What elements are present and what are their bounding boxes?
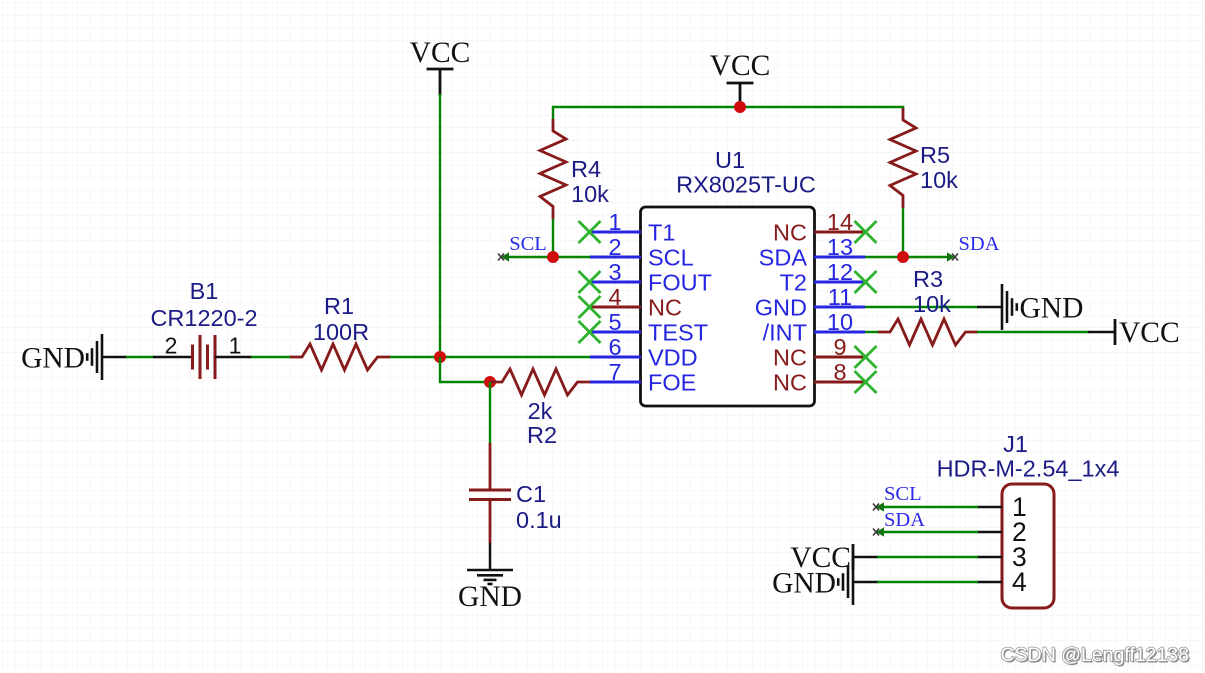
pin 2 (J1) xyxy=(977,517,1027,547)
pin 13 SDA (U1 right) xyxy=(759,234,865,271)
svg-text:3: 3 xyxy=(608,259,621,285)
resistor R4 xyxy=(540,119,566,219)
svg-text:SDA: SDA xyxy=(958,233,999,255)
svg-text:2: 2 xyxy=(165,333,178,359)
svg-text:T2: T2 xyxy=(780,270,807,296)
wire VCC2 stub xyxy=(739,83,742,108)
no-connect X (U1 left pin at y=232) xyxy=(579,221,601,243)
pin 14 NC (U1 right) xyxy=(773,209,865,246)
svg-text:GND: GND xyxy=(755,295,807,321)
svg-text:FOUT: FOUT xyxy=(648,270,712,296)
junction R2/C1 node xyxy=(484,376,496,388)
svg-text:8: 8 xyxy=(833,359,846,385)
wire GND stub black xyxy=(977,306,1002,309)
power flag VCC (right) xyxy=(1115,317,1180,349)
pin 1 (J1) xyxy=(977,492,1027,522)
svg-text:12: 12 xyxy=(827,259,853,285)
wire end marker SCL xyxy=(498,252,509,261)
svg-text:U1: U1 xyxy=(715,147,745,173)
pin 4 NC (U1 left) xyxy=(590,284,682,321)
svg-text:RX8025T-UC: RX8025T-UC xyxy=(676,172,816,198)
junction SCL node xyxy=(547,251,559,263)
junction VDD node xyxy=(434,351,446,363)
pin 8 NC (U1 right) xyxy=(773,359,865,396)
pin 4 (J1) xyxy=(977,567,1027,597)
resistor R2 xyxy=(490,369,590,395)
wire SDA net xyxy=(865,256,954,258)
svg-text:T1: T1 xyxy=(648,220,675,246)
pin 2 SCL (U1 left) xyxy=(590,234,694,271)
svg-text:SDA: SDA xyxy=(884,509,925,531)
wire VCC to J1 pin3 xyxy=(877,556,978,558)
watermark CSDN xyxy=(1000,644,1190,668)
svg-text:GND: GND xyxy=(772,567,836,599)
wire end marker SDA J1 xyxy=(873,527,884,536)
svg-text:4: 4 xyxy=(608,284,621,310)
svg-text:NC: NC xyxy=(773,370,807,396)
svg-text:11: 11 xyxy=(828,284,852,310)
op-amp U1 body xyxy=(641,207,815,406)
svg-text:R2: R2 xyxy=(527,422,557,448)
pin 3 FOUT (U1 left) xyxy=(590,259,712,296)
svg-text:J1: J1 xyxy=(1003,431,1028,457)
svg-text:10k: 10k xyxy=(571,181,609,207)
wire C1 to ground xyxy=(489,543,492,570)
svg-text:R5: R5 xyxy=(920,142,950,168)
wire GND to battery xyxy=(126,356,154,358)
svg-text:VDD: VDD xyxy=(648,345,698,371)
ground GND (right) xyxy=(1002,284,1083,330)
capacitor C1 xyxy=(469,443,511,543)
svg-text:SDA: SDA xyxy=(759,245,808,271)
svg-text:14: 14 xyxy=(827,209,853,235)
svg-text:7: 7 xyxy=(608,359,621,385)
svg-text:HDR-M-2.54_1x4: HDR-M-2.54_1x4 xyxy=(937,456,1120,482)
wire GND stub (J1) xyxy=(853,581,878,584)
wire to R2 xyxy=(440,381,490,383)
wire VCC vertical to VDD net xyxy=(439,94,441,358)
svg-text:VCC: VCC xyxy=(410,37,471,69)
svg-text:GND: GND xyxy=(1020,292,1084,324)
svg-text:NC: NC xyxy=(773,220,807,246)
resistor R3 xyxy=(878,319,978,345)
power flag VCC (J1 pin3) xyxy=(790,542,853,574)
wire top horizontal VCC net xyxy=(552,106,904,108)
wire pin10 to R3 xyxy=(865,331,879,333)
wire GND to J1 pin4 xyxy=(877,581,978,583)
svg-text:13: 13 xyxy=(827,234,853,260)
ground GND (bottom) xyxy=(458,570,522,613)
svg-text:R1: R1 xyxy=(324,293,354,319)
svg-text:C1: C1 xyxy=(516,481,546,507)
resistor R1 xyxy=(290,344,390,370)
wire SCL net xyxy=(502,256,590,258)
svg-text:GND: GND xyxy=(458,581,522,613)
no-connect X (U1 left pin at y=282) xyxy=(579,271,601,293)
ground GND (left) xyxy=(21,334,102,380)
wire R5 top stub xyxy=(902,106,904,110)
wire node to C1 xyxy=(489,382,491,444)
svg-text:R3: R3 xyxy=(913,266,943,292)
wire R4 bottom to SCL xyxy=(552,219,554,258)
power flag VCC (top-left) xyxy=(410,37,471,69)
svg-text:GND: GND xyxy=(21,342,85,374)
no-connect X (U1 right pin at y=232) xyxy=(855,221,877,243)
wire R5 bottom to SDA xyxy=(902,208,904,258)
wire VDD node down xyxy=(439,357,441,383)
pin 5 TEST (U1 left) xyxy=(590,309,708,346)
resistor R5 xyxy=(890,108,916,208)
wire end marker SDA xyxy=(947,252,958,261)
wire VCC stub xyxy=(439,69,442,96)
svg-text:100R: 100R xyxy=(313,319,369,345)
svg-text:10k: 10k xyxy=(913,291,951,317)
svg-text:SCL: SCL xyxy=(648,245,694,271)
svg-text:6: 6 xyxy=(608,334,621,360)
svg-text:1: 1 xyxy=(608,209,621,235)
svg-text:5: 5 xyxy=(608,309,621,335)
ground GND (J1 pin4) xyxy=(772,559,853,605)
svg-text:NC: NC xyxy=(773,345,807,371)
power flag VCC (top-center) xyxy=(710,50,771,83)
wire battery to R1 xyxy=(251,356,291,358)
svg-text:B1: B1 xyxy=(190,278,219,304)
no-connect X (U1 left pin at y=307) xyxy=(579,296,601,318)
junction SDA node xyxy=(897,251,909,263)
pin 6 VDD (U1 left) xyxy=(590,334,698,371)
wire R4 top stub xyxy=(552,107,554,120)
svg-text:CSDN @Lengff12138: CSDN @Lengff12138 xyxy=(1000,644,1189,666)
svg-text:VCC: VCC xyxy=(710,50,771,82)
pin 11 GND (U1 right) xyxy=(755,284,865,321)
pin 9 NC (U1 right) xyxy=(773,334,865,371)
wire VCC stub black xyxy=(1088,331,1115,334)
svg-text:/INT: /INT xyxy=(763,320,807,346)
svg-text:0.1u: 0.1u xyxy=(516,507,562,533)
connector J1 body xyxy=(1002,484,1054,608)
no-connect X (U1 right pin at y=382) xyxy=(855,371,877,393)
svg-text:2k: 2k xyxy=(528,398,553,424)
wire SCL to J1 pin1 xyxy=(877,506,978,508)
svg-text:SCL: SCL xyxy=(509,233,547,255)
svg-text:R4: R4 xyxy=(571,156,601,182)
svg-text:TEST: TEST xyxy=(648,320,708,346)
svg-text:CR1220-2: CR1220-2 xyxy=(150,305,257,331)
svg-text:VCC: VCC xyxy=(1119,317,1180,349)
svg-text:NC: NC xyxy=(648,295,682,321)
pin 10 /INT (U1 right) xyxy=(763,309,865,346)
svg-text:10: 10 xyxy=(827,309,853,335)
svg-text:10k: 10k xyxy=(920,167,958,193)
pin 7 FOE (U1 left) xyxy=(590,359,696,396)
wire SDA to J1 pin2 xyxy=(877,531,978,533)
wire R1 to VDD pin xyxy=(390,356,590,358)
wire GND net (pin 11) xyxy=(865,306,978,308)
svg-text:FOE: FOE xyxy=(648,370,696,396)
battery B1 xyxy=(153,335,252,379)
svg-text:4: 4 xyxy=(1012,567,1027,597)
wire VCC stub (J1) xyxy=(852,556,878,559)
pin 12 T2 (U1 right) xyxy=(780,259,865,296)
wire R3 to VCC xyxy=(977,331,1089,333)
pin 3 (J1) xyxy=(977,542,1027,572)
svg-text:2: 2 xyxy=(608,234,621,260)
pin 1 T1 (U1 left) xyxy=(590,209,675,246)
junction top VCC node xyxy=(734,101,746,113)
no-connect X (U1 right pin at y=357) xyxy=(855,346,877,368)
wire end marker SCL J1 xyxy=(873,502,884,511)
no-connect X (U1 right pin at y=282) xyxy=(855,271,877,293)
no-connect X (U1 left pin at y=332) xyxy=(579,321,601,343)
svg-text:9: 9 xyxy=(833,334,846,360)
svg-text:SCL: SCL xyxy=(884,483,922,505)
svg-text:1: 1 xyxy=(229,333,242,359)
wire GND pin stub xyxy=(102,356,127,359)
